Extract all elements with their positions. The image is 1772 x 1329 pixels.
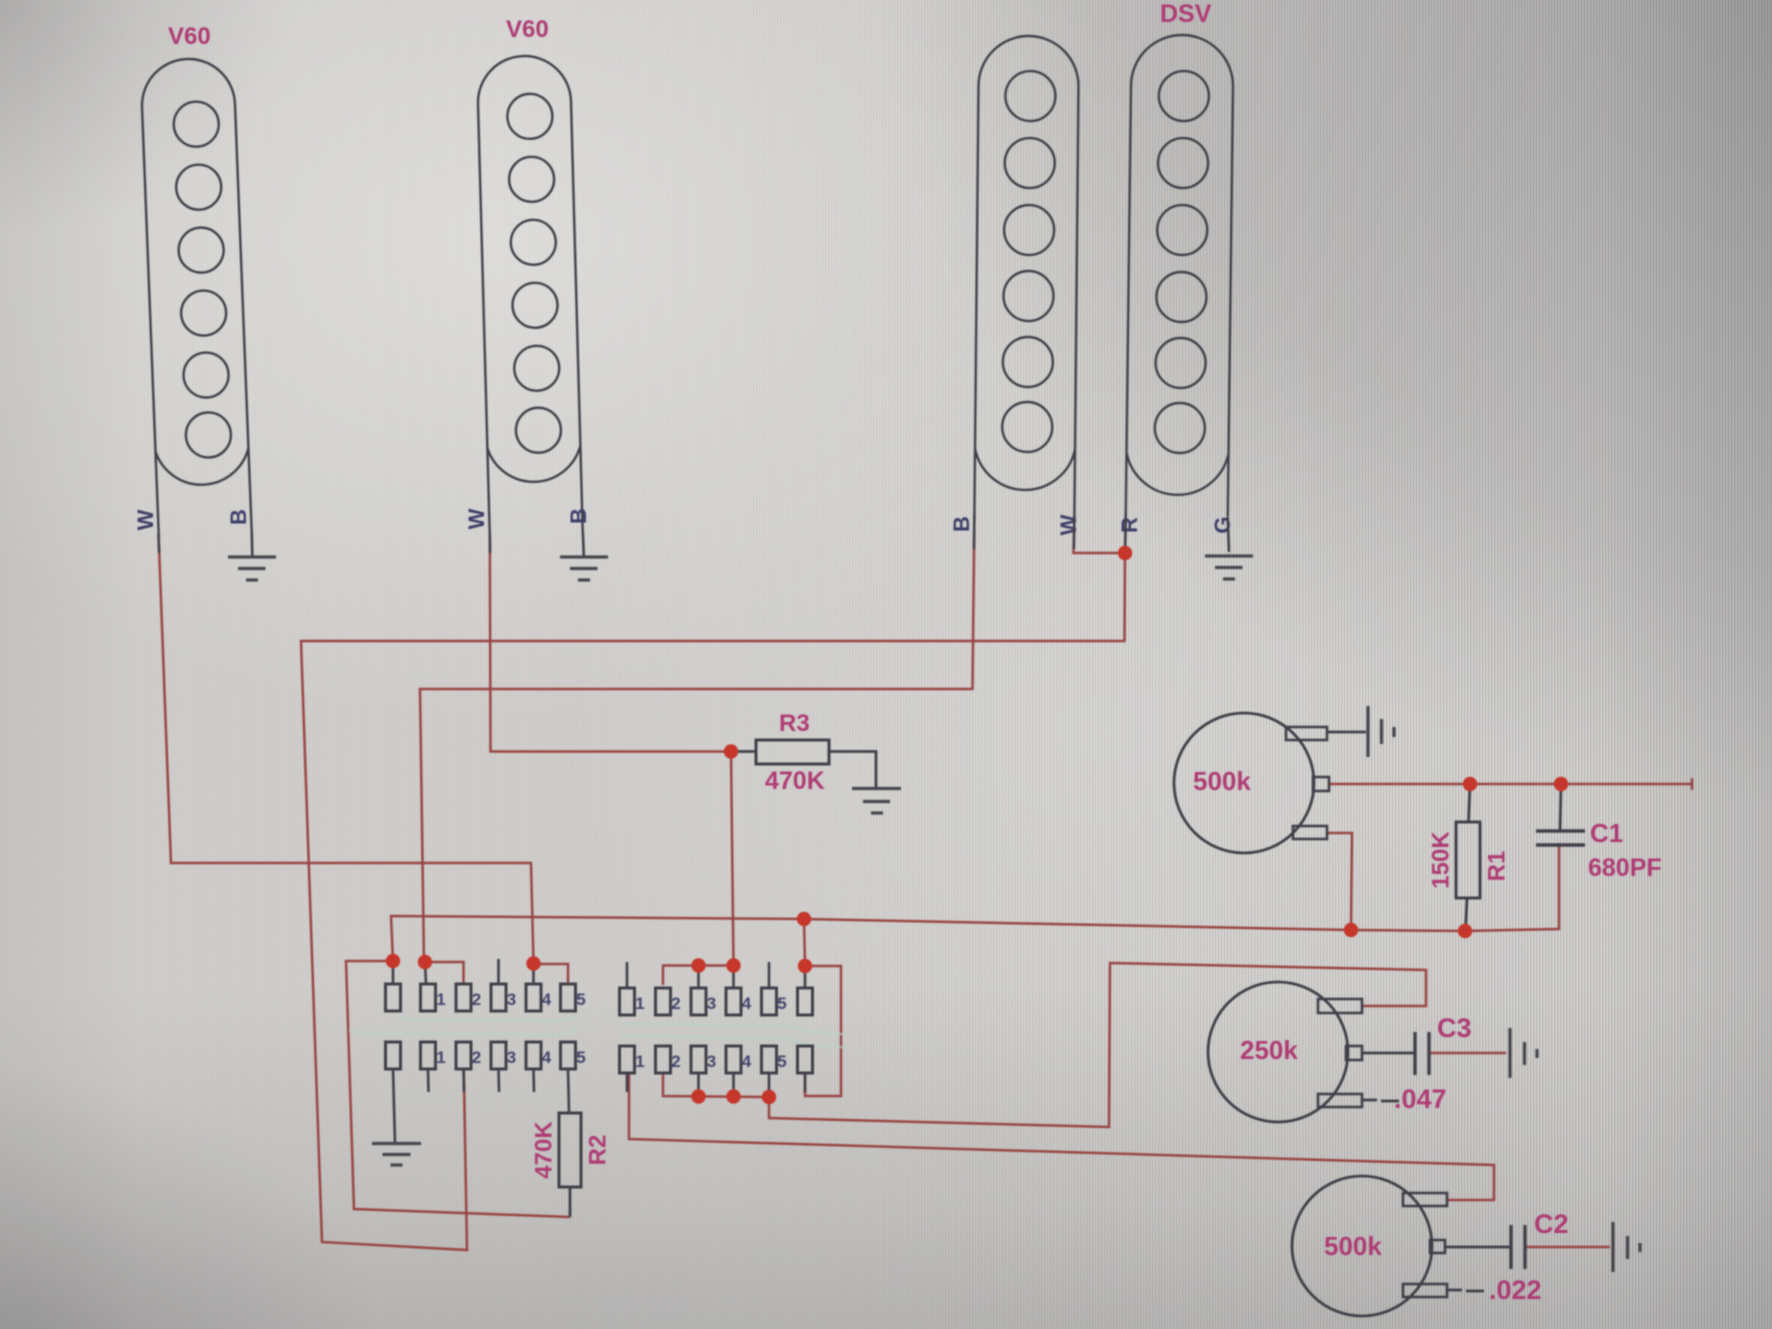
ground (switch left section)	[372, 1144, 421, 1166]
pin numbers right section bottom row	[635, 1052, 786, 1071]
5-way switch left section, bottom row leads	[393, 1069, 569, 1143]
pin numbers left section bottom row	[436, 1048, 585, 1067]
5-way switch left section, top row terminals	[386, 984, 576, 1011]
wire DSV G lead	[1228, 517, 1229, 552]
pin numbers left section top row	[436, 990, 585, 1009]
potentiometer 500k (volume)	[1174, 713, 1366, 853]
5-way switch right section, top row leads	[627, 962, 805, 988]
pin numbers right section top row	[635, 994, 786, 1013]
potentiometer 500k (tone 2)	[1292, 1176, 1511, 1316]
5-way switch left section, bottom row terminals	[386, 1042, 576, 1069]
ground (C2, right-facing)	[1613, 1222, 1640, 1272]
resistor R2	[559, 1113, 581, 1217]
wire volume pot bottom lug to net	[1327, 833, 1352, 930]
resistor R1	[1456, 784, 1480, 931]
5-way switch right section, top row terminals	[620, 988, 813, 1015]
wire pickup lead dark stubs	[159, 515, 1126, 553]
wire right switch terminal2-3-4 top links	[663, 966, 734, 986]
wire volume pot middle lug output run	[1329, 778, 1692, 790]
ground (R3)	[852, 789, 901, 814]
wire left frame terminal0-top to R2 bottom	[346, 961, 570, 1217]
ground (C3, right-facing)	[1510, 1028, 1537, 1078]
wire R3 junction down to right switch terminal 4 top	[731, 752, 734, 966]
5-way switch left section, top row leads	[393, 959, 534, 984]
wire right switch bottom bus t2-t5 to 250k tone pot top lug	[663, 963, 1426, 1127]
5-way switch: common strip (left section)	[349, 1011, 846, 1048]
wire pickup1 B lead	[251, 533, 254, 556]
pickup V60 #2 (middle single coil)	[477, 55, 583, 534]
5-way switch: common strip (right section)	[620, 1024, 846, 1035]
5-way switch right section, bottom row leads	[627, 1073, 805, 1097]
5-way switch right section, bottom row terminals	[620, 1046, 813, 1073]
capacitor C3	[1415, 1032, 1429, 1075]
resistor R3	[731, 740, 876, 787]
wire pickup2 B lead	[583, 531, 584, 556]
wire right switch terminal1 bottom to 500k tone pot top lug	[629, 1072, 1494, 1200]
wire left switch terminal4-to-terminal5 top link	[534, 964, 569, 985]
wire DSV B to left switch terminal 1 top	[420, 515, 974, 961]
pickup V60 #1 (neck single coil)	[140, 57, 252, 537]
wire pickup2 W to R3 junction	[490, 533, 731, 752]
wire right switch terminal6 frame top-to-bottom	[805, 966, 841, 1096]
wire left switch terminal1-to-terminal2 top link	[424, 962, 464, 985]
capacitor C2	[1511, 1225, 1525, 1269]
pickup DSV left coil	[974, 36, 1079, 517]
wire pickup1 W to left switch terminal 4 top	[159, 534, 534, 962]
ground (volume pot, right-facing)	[1368, 706, 1394, 757]
potentiometer 250k (tone 1)	[1208, 982, 1415, 1122]
capacitor C1	[1536, 784, 1585, 845]
wire right switch terminal6 top to pot-bottom net	[804, 919, 805, 965]
wire C3 right plate to ground	[1429, 1052, 1506, 1055]
ground (pickup 1)	[228, 557, 276, 580]
wire DSV W to junction with R	[1074, 516, 1126, 553]
pickup DSV right coil	[1126, 34, 1234, 516]
wire DSV R hot run to left switch terminal 2 bottom	[301, 515, 1126, 1250]
wire C2 right plate to ground	[1525, 1246, 1610, 1249]
wire pot-bottom net: T0-top up, across to volume pot bottom lug, R1 bottom, C1 bottom	[391, 843, 1559, 961]
ground (pickup 2)	[560, 557, 608, 580]
ground (DSV)	[1205, 556, 1253, 579]
